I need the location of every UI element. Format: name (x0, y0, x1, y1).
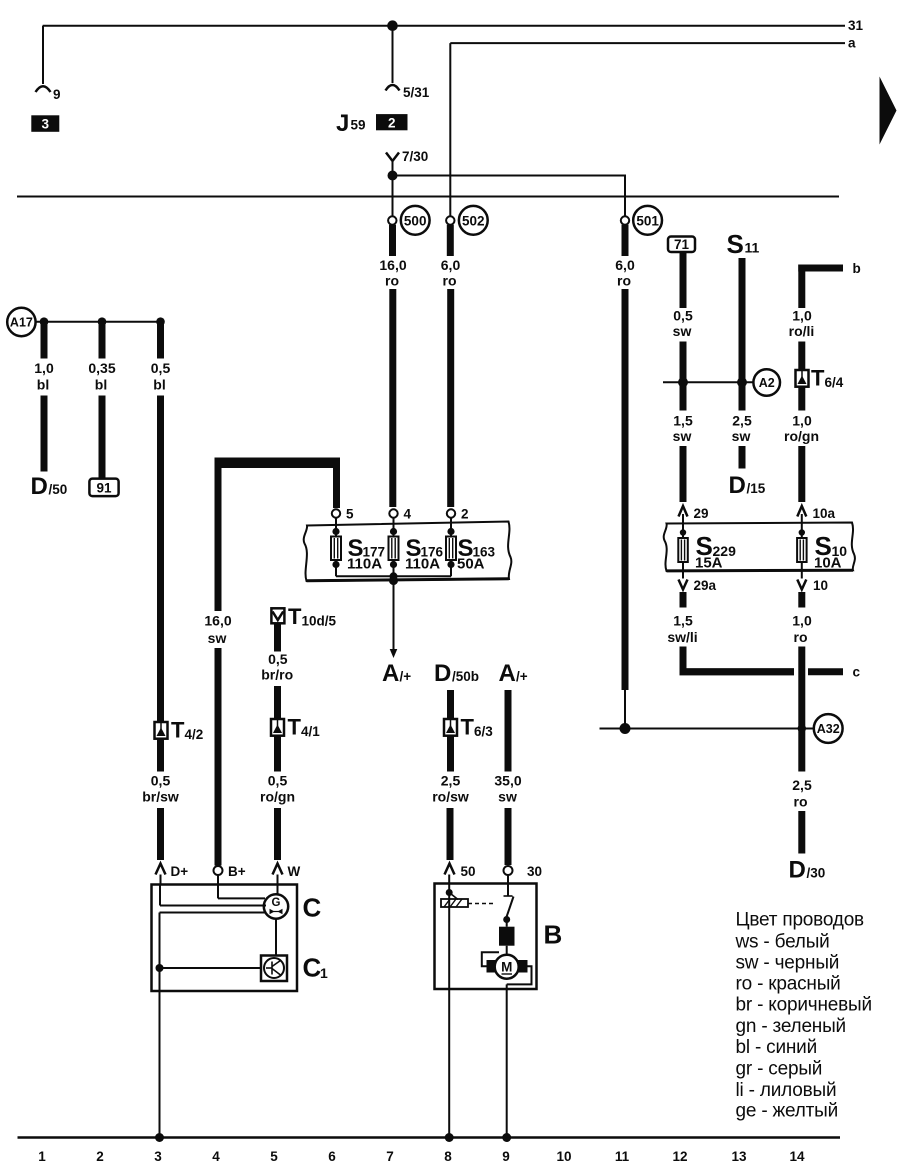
wire: J59 to bus 31 (392, 26, 394, 83)
svg-text:2,5: 2,5 (732, 413, 752, 429)
fuse S176 label (405, 535, 444, 573)
terminal D/15 label (729, 472, 766, 499)
junction node 30 (388, 171, 398, 181)
svg-text:0,5: 0,5 (151, 360, 171, 376)
relay J59 label (336, 110, 366, 137)
pin D+ (156, 864, 189, 885)
svg-text:ro/sw: ro/sw (432, 789, 469, 805)
svg-text:6/4: 6/4 (825, 375, 844, 390)
plate 71 (668, 237, 695, 253)
node c label (853, 665, 861, 680)
svg-text:T: T (288, 604, 302, 629)
svg-text:501: 501 (636, 213, 659, 228)
svg-text:7/30: 7/30 (402, 149, 428, 164)
svg-text:bl: bl (37, 377, 49, 393)
junction dot in box C (156, 964, 262, 972)
svg-text:5/31: 5/31 (403, 85, 430, 100)
svg-text:10a: 10a (813, 506, 836, 521)
svg-text:A: A (382, 660, 399, 687)
svg-text:0,5: 0,5 (268, 651, 288, 667)
wire 0,5 bl down to T4/2 (157, 322, 164, 722)
svg-text:2: 2 (388, 116, 396, 131)
pin 29 (679, 506, 709, 538)
value label 16,0 sw (204, 613, 231, 647)
svg-text:T: T (171, 718, 185, 743)
fuse S229 (678, 529, 688, 578)
svg-text:ws - белый: ws - белый (735, 932, 830, 953)
terminal 5/31 (386, 85, 430, 100)
fuse pin 2 (447, 507, 469, 537)
value label 6,0 ro (501) (615, 257, 635, 289)
track junction dots (155, 1133, 511, 1142)
regulator C1 (261, 956, 287, 982)
svg-text:ro: ro (794, 629, 808, 645)
svg-text:502: 502 (462, 213, 485, 228)
terminal D/30 label (789, 857, 826, 884)
terminal A/+ right label (499, 660, 528, 687)
svg-text:D: D (789, 857, 806, 884)
value label 6,0 ro (502) (441, 257, 461, 289)
svg-text:6,0: 6,0 (615, 257, 635, 273)
svg-text:10d/5: 10d/5 (302, 614, 337, 629)
starter box B (435, 884, 537, 990)
svg-text:1,0: 1,0 (34, 360, 54, 376)
svg-text:/15: /15 (747, 481, 766, 496)
pin 10 (797, 578, 828, 593)
svg-text:W: W (288, 864, 301, 879)
svg-text:9: 9 (53, 87, 61, 102)
wire 0,35 bl to plate 91 (99, 322, 106, 479)
svg-text:50A: 50A (457, 556, 485, 573)
starter switch (503, 885, 513, 927)
svg-text:14: 14 (789, 1149, 805, 1164)
svg-text:br - коричневый: br - коричневый (736, 995, 872, 1016)
svg-text:4: 4 (212, 1149, 220, 1164)
svg-text:11: 11 (745, 240, 760, 256)
terminal 7/30 (386, 149, 428, 176)
svg-text:sw: sw (673, 323, 692, 339)
wire: starter 30 to track 9 (506, 984, 508, 1137)
terminal 9 connector (36, 86, 61, 102)
wire 1,0 bl to D/50 (41, 322, 48, 472)
plate 91 (89, 479, 118, 497)
svg-text:B+: B+ (228, 864, 246, 879)
svg-text:110A: 110A (347, 556, 382, 573)
value label 1,0 bl (34, 360, 54, 393)
svg-text:T: T (811, 366, 825, 391)
svg-text:50: 50 (461, 864, 476, 879)
svg-text:ge - желтый: ge - желтый (736, 1101, 839, 1122)
svg-text:0,35: 0,35 (88, 360, 115, 376)
fuse S10 (797, 529, 807, 578)
svg-text:T: T (288, 715, 302, 740)
svg-text:T: T (461, 715, 475, 740)
svg-text:59: 59 (351, 118, 366, 133)
wire 6,0 ro to fuse pin 2 (447, 225, 454, 507)
label B (544, 920, 563, 950)
svg-text:2: 2 (461, 507, 469, 522)
contact block (499, 927, 515, 955)
svg-text:/50b: /50b (452, 669, 479, 684)
wire 1,0 ro to A32 (792, 592, 812, 729)
wire 1,5 sw to fuse pin 29 (673, 413, 693, 503)
junction dots on A17 branch (40, 317, 165, 326)
svg-text:91: 91 (96, 481, 112, 496)
label C1 (303, 953, 329, 983)
svg-text:li - лиловый: li - лиловый (736, 1080, 837, 1101)
value label 0,5 bl (151, 360, 171, 393)
svg-text:2: 2 (96, 1149, 104, 1164)
svg-text:29a: 29a (694, 578, 717, 593)
pin B+ (214, 864, 246, 885)
svg-text:4/2: 4/2 (185, 727, 204, 742)
pin 29a (679, 578, 717, 593)
svg-text:12: 12 (672, 1149, 687, 1164)
generator inner wiring (160, 885, 278, 992)
terminal D/50b label (434, 660, 479, 687)
value label 35,0 sw (494, 773, 521, 805)
wire: net a (450, 43, 845, 216)
svg-text:11: 11 (615, 1149, 630, 1164)
wire 16,0 ro to fuse pin 4 (389, 225, 396, 507)
svg-text:13: 13 (731, 1149, 747, 1164)
wire 0,5 sw from 71 (680, 252, 687, 411)
wire 16,0 sw B+ to fuse pin 5 (215, 458, 341, 866)
fuse S176 (389, 528, 399, 582)
connector T4/2 (155, 718, 204, 743)
svg-text:ro: ro (385, 273, 399, 289)
svg-text:5: 5 (346, 507, 354, 522)
connector T10d/5 (271, 604, 336, 629)
wire 2,5 ro/sw from D/50b (447, 690, 454, 719)
starter solenoid feed (446, 884, 458, 989)
fuse strip right band (664, 523, 855, 572)
svg-text:bl: bl (153, 377, 165, 393)
wire: drop to terminal 9 (42, 26, 44, 84)
value label 0,5 ro/gn (260, 773, 295, 805)
svg-text:ro/li: ro/li (789, 323, 815, 339)
wire 2,5 ro/sw to 50 (447, 736, 455, 860)
svg-text:0,5: 0,5 (151, 773, 171, 789)
connector A2 (753, 369, 780, 396)
wire 6,0 ro long to A32 node (622, 225, 629, 729)
pin W (273, 864, 301, 885)
value label 2,5 sw (732, 413, 752, 445)
fuse S163 label (457, 535, 496, 573)
svg-text:7: 7 (386, 1149, 394, 1164)
wire 0,5 ro/gn to W (274, 736, 281, 860)
svg-text:/+: /+ (516, 669, 528, 684)
svg-text:D+: D+ (171, 864, 189, 879)
svg-text:b: b (853, 261, 861, 276)
svg-text:4/1: 4/1 (301, 724, 320, 739)
wire G to regulator (275, 919, 277, 956)
svg-text:D: D (31, 473, 48, 500)
node b label (853, 261, 861, 276)
svg-text:1,0: 1,0 (792, 308, 812, 324)
track numbers (38, 1149, 805, 1164)
svg-text:/50: /50 (49, 482, 68, 497)
svg-text:4: 4 (404, 507, 412, 522)
wire: S176 to A/+ (390, 581, 398, 659)
wire: node 30 drop to 500 (392, 176, 394, 217)
svg-text:3: 3 (42, 117, 50, 132)
svg-text:ro: ro (443, 273, 457, 289)
wire 0,5 br/sw to D+ (157, 739, 164, 860)
motor loop wiring (482, 952, 532, 984)
svg-text:0,5: 0,5 (268, 773, 288, 789)
svg-text:9: 9 (502, 1149, 510, 1164)
svg-text:/30: /30 (807, 866, 826, 881)
svg-text:gn - зеленый: gn - зеленый (736, 1016, 846, 1037)
value label 0,5 sw (673, 308, 693, 340)
fuse pin 5 (332, 507, 354, 537)
svg-text:gr - серый: gr - серый (736, 1059, 823, 1080)
wire 1,5 sw/li to net c (667, 592, 794, 675)
fuse strip left band (304, 522, 512, 582)
svg-text:br/sw: br/sw (142, 789, 179, 805)
svg-text:B: B (544, 920, 563, 950)
connector T6/3 (444, 715, 493, 740)
svg-text:sw: sw (732, 428, 751, 444)
value label 1,0 ro/li (789, 308, 815, 340)
svg-text:35,0: 35,0 (494, 773, 521, 789)
svg-text:16,0: 16,0 (204, 613, 231, 629)
svg-text:sw - черный: sw - черный (736, 953, 840, 974)
svg-text:1: 1 (38, 1149, 46, 1164)
svg-text:D: D (434, 660, 451, 687)
ground plate 3 (31, 115, 59, 132)
value label 0,5 br/sw (142, 773, 179, 805)
svg-text:6/3: 6/3 (474, 724, 493, 739)
terminal D/50 label (31, 473, 68, 500)
connector 501 (621, 206, 662, 235)
svg-text:1,5: 1,5 (673, 413, 693, 429)
svg-text:G: G (272, 897, 281, 909)
direction arrow right edge (880, 77, 897, 145)
svg-text:ro: ro (794, 794, 808, 810)
svg-text:71: 71 (674, 237, 690, 252)
svg-text:2,5: 2,5 (441, 773, 461, 789)
value label 0,35 bl (88, 360, 115, 393)
track rail (18, 1136, 841, 1139)
svg-text:3: 3 (154, 1149, 162, 1164)
svg-text:500: 500 (404, 213, 427, 228)
svg-text:C: C (303, 893, 322, 923)
svg-text:8: 8 (444, 1149, 452, 1164)
value label 0,5 br/ro (261, 651, 293, 683)
svg-text:J: J (336, 110, 349, 137)
svg-text:6,0: 6,0 (441, 257, 461, 273)
wire 35,0 sw from A/+ to 30 (505, 690, 512, 865)
svg-text:2,5: 2,5 (792, 777, 812, 793)
svg-text:S: S (727, 229, 744, 259)
generator box C (152, 885, 298, 992)
connector T4/1 (271, 715, 320, 740)
connector A32 (814, 714, 843, 743)
svg-text:1: 1 (320, 965, 328, 981)
wire: A17 branch line (36, 321, 161, 323)
svg-text:110A: 110A (405, 556, 440, 573)
wire 1,0 ro/gn to pin 10a (784, 387, 819, 502)
svg-text:16,0: 16,0 (379, 257, 406, 273)
svg-text:A17: A17 (10, 316, 33, 330)
S11 label (727, 229, 760, 259)
svg-text:a: a (848, 36, 856, 51)
node a label (848, 36, 856, 51)
svg-text:/+: /+ (400, 669, 412, 684)
junction on bus 31 (387, 20, 398, 31)
fuse S177 (331, 528, 341, 576)
wire: fuse bottom bus (336, 572, 451, 585)
starter motor M (487, 955, 528, 979)
svg-text:A2: A2 (759, 376, 775, 390)
svg-text:31: 31 (848, 18, 864, 33)
fuse S177 label (347, 535, 385, 573)
wire: A32 branch line (600, 723, 815, 734)
wire: node 30 to connector 501 (393, 176, 626, 217)
svg-text:1,0: 1,0 (792, 413, 812, 429)
svg-text:ro - красный: ro - красный (736, 974, 841, 995)
generator G symbol (264, 894, 288, 918)
svg-text:bl: bl (95, 377, 107, 393)
svg-text:sw: sw (208, 630, 227, 646)
svg-text:sw: sw (498, 789, 517, 805)
wire net b 1,0 ro/li (798, 265, 843, 309)
svg-text:ro/gn: ro/gn (784, 428, 819, 444)
svg-text:br/ro: br/ro (261, 667, 293, 683)
svg-text:1,5: 1,5 (673, 613, 693, 629)
svg-text:Цвет проводов: Цвет проводов (736, 910, 865, 931)
connector 500 (388, 206, 430, 235)
svg-text:5: 5 (270, 1149, 278, 1164)
node 31 label (848, 18, 864, 33)
wire 2,5 ro to D/30 (792, 729, 812, 854)
svg-text:10: 10 (813, 578, 828, 593)
wire colour legend (735, 910, 872, 1122)
pin 30 (504, 864, 543, 885)
fuse S10 label (814, 531, 847, 572)
fuse S229 label (695, 531, 736, 572)
svg-text:ro: ro (617, 273, 631, 289)
wire: ground bus 31 top (43, 25, 845, 27)
solenoid coil (441, 899, 496, 907)
svg-text:ro/gn: ro/gn (260, 789, 295, 805)
svg-text:M: M (501, 960, 512, 975)
connector T6/4 (796, 342, 844, 391)
terminal A/+ left label (382, 660, 411, 687)
svg-text:15A: 15A (695, 555, 723, 572)
fuse S163 (446, 528, 456, 576)
svg-text:bl - синий: bl - синий (736, 1037, 818, 1058)
svg-text:10: 10 (556, 1149, 571, 1164)
svg-text:0,5: 0,5 (673, 308, 693, 324)
ground plate 2 (376, 114, 408, 130)
label C (303, 893, 322, 923)
svg-text:1,0: 1,0 (792, 613, 812, 629)
svg-text:sw: sw (673, 428, 692, 444)
wire: box C to track 3 (159, 991, 161, 1138)
wire 0,5 br/ro (274, 623, 281, 718)
value label 2,5 ro/sw (432, 773, 469, 805)
svg-text:A32: A32 (817, 722, 840, 736)
connector A17 (7, 308, 35, 336)
wire: bus line 30 full width (17, 196, 839, 198)
wire stub to D/15 (739, 446, 746, 469)
svg-text:30: 30 (527, 864, 542, 879)
svg-text:c: c (853, 665, 861, 680)
svg-text:C: C (303, 953, 322, 983)
pin 50 (445, 864, 476, 885)
svg-text:29: 29 (694, 506, 709, 521)
connector 502 (446, 206, 488, 235)
pin 10a (797, 506, 835, 538)
wire: starter 50 to track 8 (448, 989, 450, 1138)
svg-text:sw/li: sw/li (667, 629, 697, 645)
wire net c right segment (808, 668, 843, 675)
wire: A2 crossing line (663, 377, 753, 387)
wire 2,5 sw from S11 (739, 258, 746, 411)
svg-text:10A: 10A (814, 555, 842, 572)
fuse pin 4 (389, 507, 411, 537)
svg-text:6: 6 (328, 1149, 336, 1164)
svg-text:A: A (499, 660, 516, 687)
value label 16,0 ro (379, 257, 406, 289)
svg-text:D: D (729, 472, 746, 499)
